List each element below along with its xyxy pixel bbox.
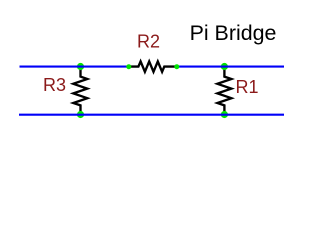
- node: R3 bottom junction: [77, 111, 84, 118]
- node: R2 left pin: [126, 64, 131, 69]
- node: R1 bottom junction: [221, 111, 228, 118]
- resistor R3: [73, 67, 87, 115]
- wire: bottom: [19, 114, 284, 116]
- node: R3 top junction: [77, 63, 84, 70]
- node: R2 right pin: [174, 64, 179, 69]
- resistor R2: [129, 61, 177, 71]
- wire: top left segment: [20, 66, 129, 68]
- wire: top right segment: [177, 66, 284, 68]
- svg-text:R2: R2: [137, 32, 160, 52]
- svg-text:Pi Bridge: Pi Bridge: [190, 21, 277, 45]
- svg-text:R3: R3: [43, 75, 66, 95]
- resistor R1: [217, 67, 231, 115]
- node: R1 top junction: [221, 63, 228, 70]
- svg-text:R1: R1: [236, 77, 259, 97]
